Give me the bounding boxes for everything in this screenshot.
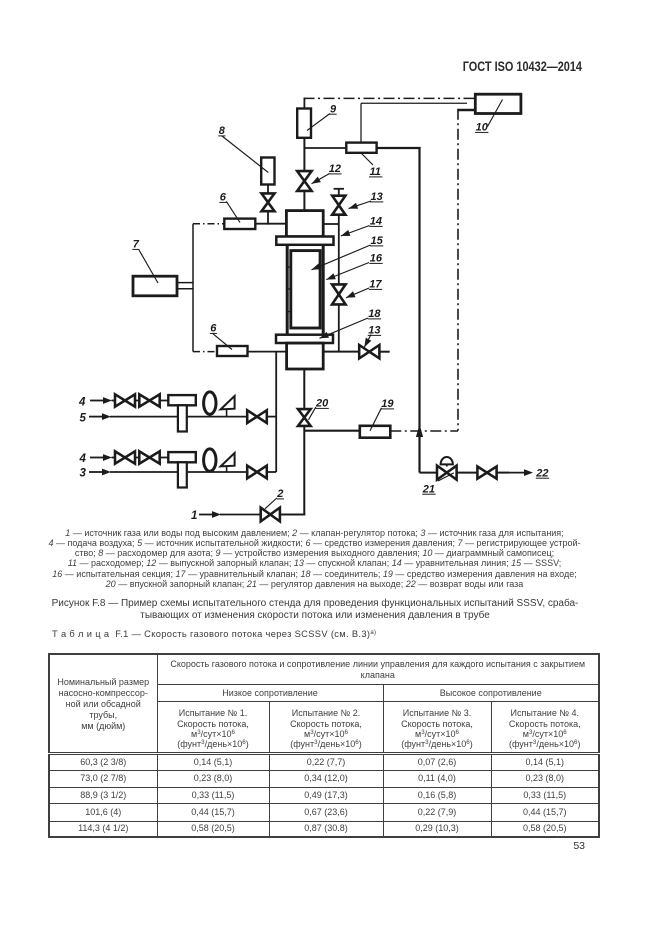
- svg-text:16: 16: [370, 253, 383, 265]
- svg-text:10: 10: [476, 122, 489, 134]
- svg-text:11: 11: [370, 166, 381, 178]
- svg-text:6: 6: [220, 192, 227, 204]
- svg-text:6: 6: [210, 323, 217, 335]
- svg-text:18: 18: [368, 308, 381, 320]
- svg-text:20: 20: [315, 398, 329, 410]
- svg-text:2: 2: [276, 488, 283, 500]
- svg-text:13: 13: [371, 191, 383, 203]
- svg-text:17: 17: [369, 279, 382, 291]
- svg-text:13: 13: [368, 325, 380, 337]
- svg-text:1: 1: [191, 510, 197, 522]
- svg-text:3: 3: [80, 468, 87, 480]
- svg-text:19: 19: [381, 398, 394, 410]
- svg-text:8: 8: [219, 125, 226, 137]
- svg-text:4: 4: [78, 397, 86, 409]
- svg-text:14: 14: [370, 216, 382, 228]
- svg-text:22: 22: [535, 467, 548, 479]
- svg-text:5: 5: [80, 413, 87, 425]
- svg-text:21: 21: [422, 483, 435, 495]
- svg-text:12: 12: [329, 163, 341, 175]
- svg-text:9: 9: [330, 103, 337, 115]
- svg-text:15: 15: [371, 235, 384, 247]
- svg-text:4: 4: [79, 453, 87, 465]
- svg-text:7: 7: [133, 239, 140, 251]
